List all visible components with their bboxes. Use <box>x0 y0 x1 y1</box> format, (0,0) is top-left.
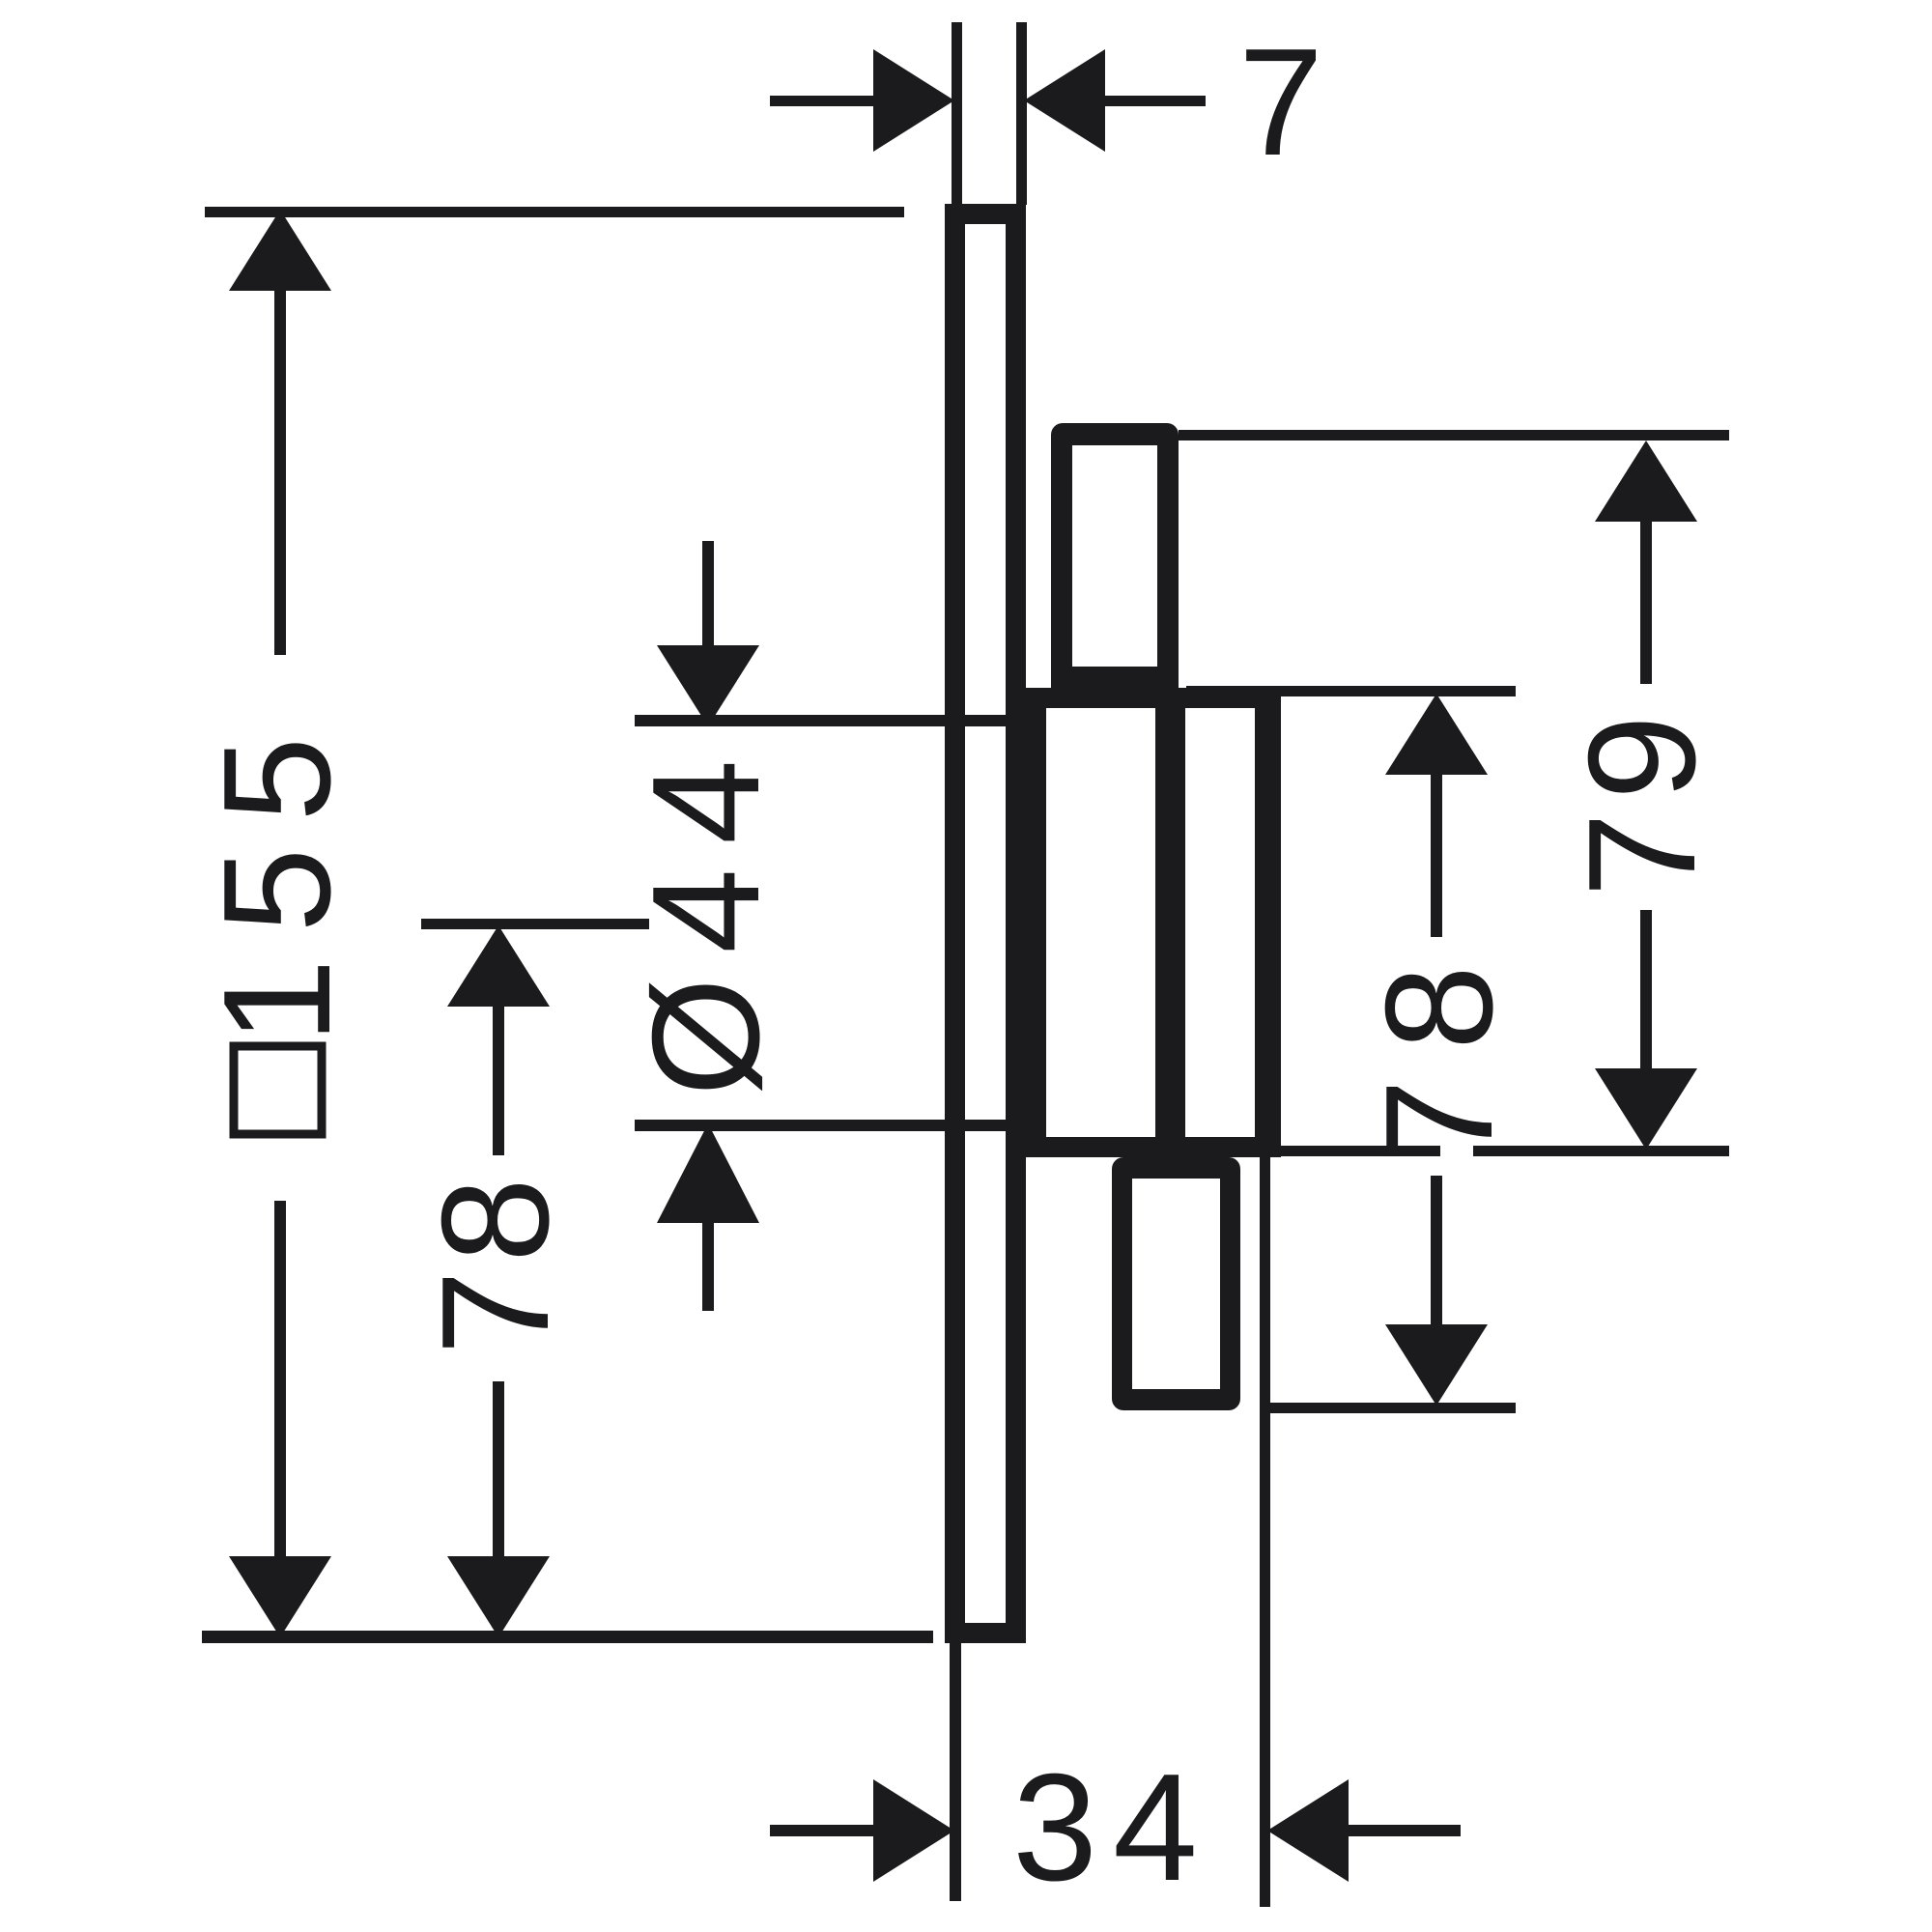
svg-text:78: 78 <box>411 1170 581 1355</box>
svg-text:34: 34 <box>1012 1743 1213 1913</box>
svg-text:79: 79 <box>1557 702 1727 897</box>
svg-text:7: 7 <box>1238 17 1323 187</box>
svg-text:78: 78 <box>1354 936 1524 1164</box>
svg-text:155: 155 <box>192 711 362 1044</box>
svg-text:Ø44: Ø44 <box>621 735 791 1096</box>
